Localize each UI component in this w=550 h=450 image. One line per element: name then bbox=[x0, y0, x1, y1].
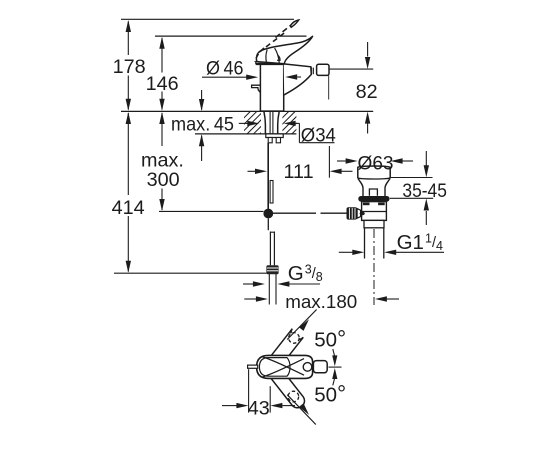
svg-text:178: 178 bbox=[113, 56, 146, 78]
svg-text:max. 45: max. 45 bbox=[171, 114, 234, 136]
svg-text:43: 43 bbox=[248, 397, 270, 419]
svg-text:Ø 46: Ø 46 bbox=[206, 58, 244, 80]
svg-text:max.180: max.180 bbox=[285, 291, 357, 312]
svg-text:300: 300 bbox=[147, 169, 180, 191]
svg-text:Ø34: Ø34 bbox=[301, 124, 336, 146]
svg-text:82: 82 bbox=[356, 81, 378, 103]
svg-text:414: 414 bbox=[112, 197, 145, 219]
svg-text:111: 111 bbox=[284, 161, 314, 183]
svg-text:35-45: 35-45 bbox=[402, 181, 447, 202]
svg-text:50°: 50° bbox=[314, 325, 346, 351]
svg-text:146: 146 bbox=[146, 73, 179, 95]
svg-text:50°: 50° bbox=[314, 380, 346, 406]
svg-text:Ø63: Ø63 bbox=[358, 152, 394, 174]
